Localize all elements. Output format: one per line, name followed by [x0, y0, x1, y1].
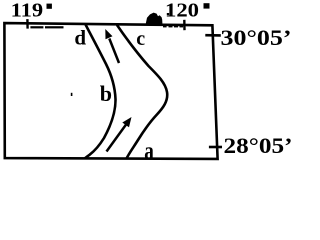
left river curve (through d and b): [85, 25, 116, 159]
svg-text:28°05’: 28°05’: [224, 133, 292, 158]
dash texture right of blob 1: [163, 26, 167, 28]
small speck right of blob: [167, 13, 169, 15]
ghost dash under top border left 2: [45, 26, 64, 28]
svg-text:119: 119: [11, 0, 44, 22]
upper flow arrow shaft: [109, 39, 119, 64]
svg-text:b: b: [100, 81, 112, 106]
tick on top border below 120: [183, 20, 186, 30]
ghost dash under top border left: [30, 26, 43, 28]
svg-text:120: 120: [165, 0, 199, 22]
dash texture right of blob 3: [174, 26, 178, 28]
tick on top border below 119: [26, 19, 29, 29]
tiny speck in map interior: [71, 93, 73, 96]
lower flow arrow head: [122, 117, 131, 127]
dash texture right of blob 2: [169, 26, 173, 28]
black blob symbol (settlement) on top border: [146, 13, 163, 24]
tick on right border at 28deg05: [209, 146, 222, 149]
tick on right border at 30deg05: [205, 34, 221, 37]
svg-text:a: a: [144, 138, 154, 165]
dash texture right of blob 4: [180, 26, 184, 28]
svg-text:30°05’: 30°05’: [221, 25, 292, 50]
svg-text:d: d: [74, 26, 86, 50]
lower flow arrow shaft: [107, 125, 127, 152]
map frame border: [4, 23, 217, 159]
upper flow arrow head: [105, 29, 112, 39]
svg-text:c: c: [136, 28, 145, 50]
right river curve (through c and a): [117, 25, 167, 159]
